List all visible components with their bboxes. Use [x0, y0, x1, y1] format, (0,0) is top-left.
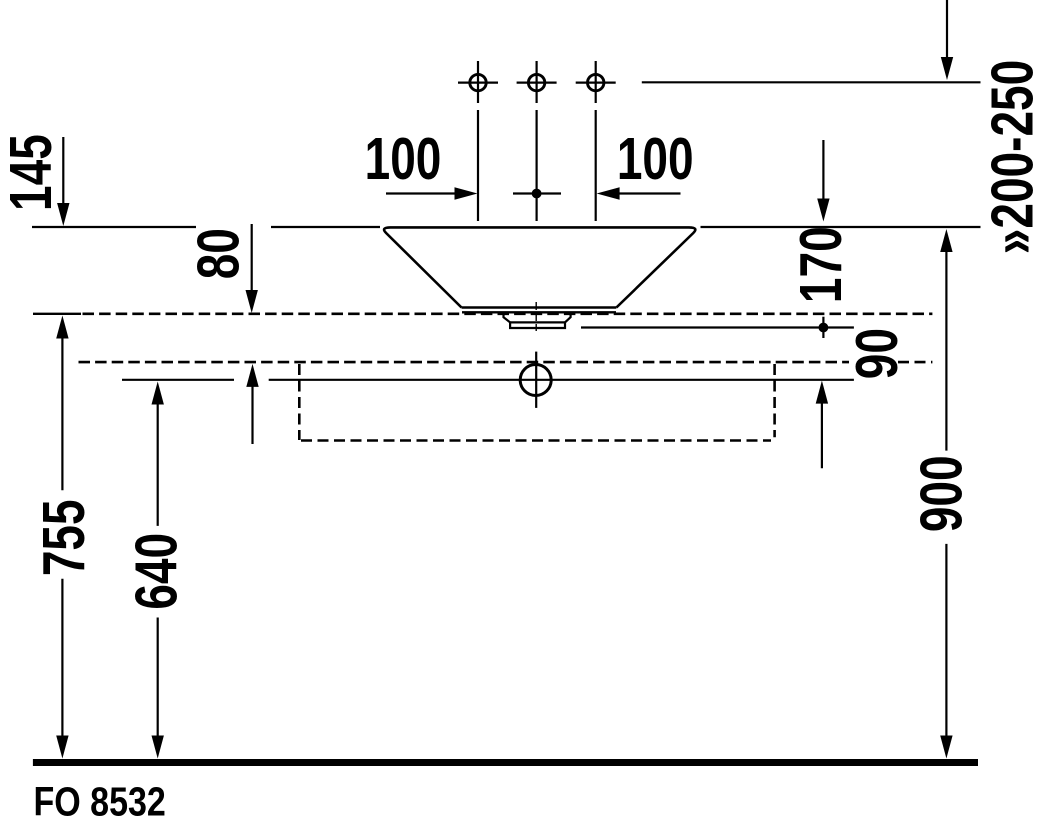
640 dimension line upper: [157, 403, 159, 526]
755 dimension line upper: [61, 337, 63, 490]
countertop level solid segment: [33, 313, 81, 315]
755 arrowhead down: [56, 736, 68, 759]
drain outlet vertical centre line: [535, 352, 537, 408]
900 dimension line lower: [945, 544, 947, 737]
755 dimension line lower: [61, 579, 63, 737]
tap hole circle 3: [588, 74, 604, 90]
drain axis line main segment: [269, 379, 854, 381]
washbasin bowl outline: [384, 227, 695, 307]
countertop underside dashed line right of 90 text: [898, 361, 932, 364]
installation zone dashed rectangle right edge: [773, 364, 776, 437]
svg-text:FO 8532: FO 8532: [34, 779, 166, 825]
drain fitting: [504, 312, 571, 328]
svg-text:170: 170: [789, 226, 855, 303]
wall reference vertical line (top, for tap height dimension): [946, 0, 948, 59]
tap reference horizontal line: [642, 81, 981, 83]
drain outlet circle: [520, 365, 551, 396]
bowl base band top line: [462, 306, 617, 308]
centre reference dot: [532, 189, 542, 199]
svg-text:100: 100: [365, 127, 442, 193]
svg-text:145: 145: [0, 134, 64, 211]
90 dimension line: [821, 402, 823, 468]
755 arrowhead up: [56, 316, 68, 339]
middle centre line: [535, 110, 537, 221]
svg-text:80: 80: [186, 228, 252, 279]
svg-text:90: 90: [844, 328, 910, 379]
145 dimension line: [62, 137, 64, 205]
90 arrowhead up: [816, 381, 828, 404]
tap hole 3 cross ticks: [576, 81, 616, 83]
bowl bottom reference dot: [819, 323, 829, 333]
tap hole 3 centre line: [595, 110, 597, 221]
centre line through drain: [535, 302, 537, 331]
900 dimension line upper: [945, 251, 947, 451]
bowl base band bottom line: [462, 311, 616, 313]
spacing arrow line: [251, 386, 253, 444]
640 dimension line lower: [157, 618, 159, 738]
900 arrowhead up: [940, 229, 952, 252]
tap hole 1 cross ticks: [458, 81, 498, 83]
countertop underside dashed line: [79, 361, 850, 364]
drain axis line left segment: [122, 379, 234, 381]
spacing arrowhead up at countertop underside: [246, 364, 258, 387]
reference dot vertical tick: [822, 317, 824, 338]
640 arrowhead up: [152, 382, 164, 405]
bowl bottom reference line: [581, 326, 854, 328]
100 right arrowhead left: [597, 187, 620, 199]
100 left dimension line: [386, 192, 456, 194]
100 right dimension line: [618, 192, 681, 194]
arrowhead down onto tap reference line: [941, 57, 953, 80]
170 dimension line: [822, 140, 824, 200]
900 arrowhead down: [940, 736, 952, 759]
svg-text:100: 100: [617, 127, 694, 193]
countertop level dashed line: [83, 312, 933, 315]
rim level extension line left second segment: [271, 226, 380, 228]
tap hole 2 cross ticks: [517, 81, 557, 83]
rim level extension line right: [701, 226, 981, 228]
installation zone dashed rectangle bottom edge: [301, 439, 771, 442]
floor line: [33, 759, 978, 766]
tap hole circle 1: [470, 74, 486, 90]
svg-text:640: 640: [124, 533, 190, 610]
rim level extension line left: [32, 226, 196, 228]
80 dimension line: [251, 224, 253, 292]
drain fitting seam line: [510, 321, 565, 323]
100 left arrowhead right: [455, 187, 478, 199]
tap hole circle 2: [528, 74, 544, 90]
170 arrowhead down: [817, 199, 829, 222]
640 arrowhead down: [152, 736, 164, 759]
80 arrowhead down: [246, 290, 258, 313]
installation zone dashed rectangle left edge: [298, 364, 301, 440]
centre dot tick: [513, 192, 561, 194]
svg-text:755: 755: [32, 499, 98, 576]
svg-text:900: 900: [909, 455, 975, 532]
145 arrowhead down: [57, 203, 69, 226]
tap hole 1 centre line: [477, 110, 479, 221]
svg-text:»200-250: »200-250: [980, 60, 1046, 254]
